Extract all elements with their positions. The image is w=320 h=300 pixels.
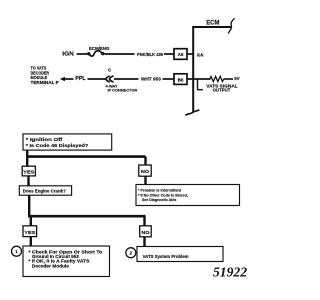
svg-text:IP CONNECTOR: IP CONNECTOR: [108, 88, 138, 93]
branch line 1: [26, 155, 146, 158]
wire PPL to connector: [88, 78, 106, 80]
svg-text:* Is Code 46 Displayed?: * Is Code 46 Displayed?: [26, 143, 89, 149]
svg-text:Does Engine Crank?: Does Engine Crank?: [23, 189, 66, 194]
wire NO2 to box5: [143, 237, 145, 247]
stub to NO 2: [143, 216, 145, 226]
footnote circle 2: [126, 248, 136, 258]
stub to YES 1: [26, 157, 28, 167]
NO box 2: [140, 226, 152, 237]
footnote circle 1: [12, 246, 22, 256]
svg-text:IGN: IGN: [197, 53, 204, 59]
wire IGN to fuse: [77, 53, 88, 55]
connector label 4-WAY IP CONNECTOR: [106, 84, 138, 93]
ECM boundary break mark top: [228, 18, 234, 33]
wire YES2 to box4: [30, 237, 32, 246]
wire resistor to 5V: [224, 78, 233, 80]
in-line connector C: [106, 76, 114, 82]
flow box 5: VATS System Problem: [137, 247, 223, 262]
terminal box B6: [174, 74, 187, 85]
svg-text:VATS System Problem: VATS System Problem: [143, 254, 189, 259]
pull-up resistor: [210, 76, 224, 81]
svg-text:A6: A6: [178, 52, 184, 57]
wire to terminal A6: [164, 53, 174, 55]
svg-text:WHT 953: WHT 953: [141, 76, 161, 81]
svg-text:ECM: ECM: [206, 19, 220, 26]
svg-text:YES: YES: [24, 230, 36, 236]
svg-text:See Diagnostic Aids: See Diagnostic Aids: [142, 197, 177, 202]
fuse ECM/ENG: [87, 51, 105, 56]
svg-text:NO: NO: [141, 169, 149, 175]
flow box 3: Problem Is Intermittent: [136, 185, 240, 206]
NO box 1: [139, 165, 151, 176]
svg-text:B6: B6: [178, 77, 184, 82]
stub to NO 1: [144, 157, 146, 165]
ECM boundary break mark bottom: [185, 110, 199, 116]
svg-text:YES: YES: [23, 170, 35, 176]
arrow to VATS decoder: [60, 77, 74, 81]
terminal box A6: [174, 49, 187, 60]
wire box1 down: [26, 150, 28, 157]
svg-text:* Ignition Off: * Ignition Off: [26, 137, 63, 143]
flow box 4: Check For Open Or Short To Ground: [23, 246, 110, 277]
svg-text:IGN: IGN: [62, 51, 74, 57]
svg-text:Decoder Module: Decoder Module: [32, 263, 70, 268]
TO VATS DECODER MODULE TERMINAL P label: [31, 66, 59, 85]
wire fuse to label: [105, 53, 135, 55]
flow box 2: Does Engine Crank?: [19, 186, 71, 195]
VATS signal output elbow: [198, 80, 204, 90]
svg-text:ECM/ENG: ECM/ENG: [89, 46, 110, 51]
VATS SIGNAL OUTPUT label: [206, 83, 238, 92]
svg-text:5V: 5V: [234, 76, 239, 81]
wire to terminal B6: [163, 78, 175, 80]
svg-text:PPL: PPL: [75, 76, 85, 82]
stub A6 to ECM line: [187, 53, 193, 55]
svg-text:TERMINAL P: TERMINAL P: [31, 80, 59, 85]
branch line 2: [28, 215, 146, 218]
stub to YES 2: [30, 216, 32, 226]
svg-text:51922: 51922: [213, 266, 247, 281]
wire connector to WHT label: [114, 78, 139, 80]
YES box 1: [22, 166, 35, 176]
svg-text:NO: NO: [141, 230, 149, 236]
wire box2 down: [28, 195, 30, 216]
svg-text:OUTPUT: OUTPUT: [213, 87, 231, 92]
wire YES1 to box2: [27, 176, 29, 186]
wire B6 to resistor: [187, 78, 211, 80]
YES box 2: [23, 226, 37, 237]
svg-text:PNK/BLK 439: PNK/BLK 439: [137, 52, 164, 57]
wire NO1 to box3: [144, 176, 146, 184]
ECM boundary line: [193, 27, 231, 113]
flow box 1: Ignition Off / Is Code 46 Displayed?: [23, 134, 112, 150]
